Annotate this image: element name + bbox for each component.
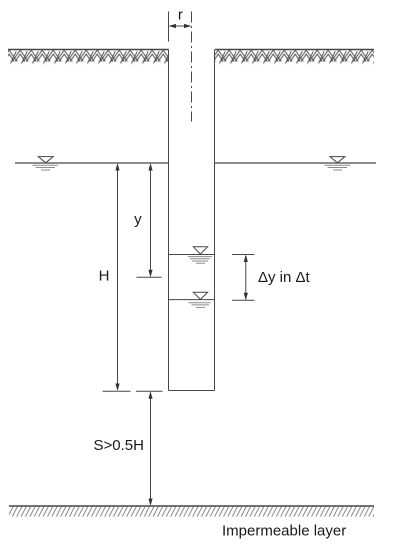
centerline of well (dash-dot) [191,12,193,122]
dimension S [136,391,163,506]
ground surface right [215,50,374,65]
dimension H [103,163,131,391]
extension line above pipe left wall [168,12,170,42]
dimension y [136,163,161,277]
dimension delta-y ticks [232,255,255,301]
ground surface left [8,50,169,65]
water table symbol left [33,157,59,170]
dimension arrow r [169,24,192,28]
water table symbol right [325,157,351,170]
water level 1 symbol [188,247,212,263]
impermeable layer [9,506,374,517]
svg-text:S>0.5H: S>0.5H [94,437,144,454]
water level 2 inside well [169,299,215,301]
well right wall [214,50,216,391]
water level 2 symbol [189,292,211,307]
well left wall [168,50,170,391]
well bottom [169,390,215,392]
svg-text:Δy in Δt: Δy in Δt [258,269,311,286]
svg-text:H: H [99,268,110,285]
svg-text:r: r [178,7,183,24]
water table line left [15,162,169,164]
water level 1 inside well [169,254,215,256]
svg-text:y: y [134,211,142,228]
water table line right [215,162,377,164]
svg-text:Impermeable layer: Impermeable layer [222,523,346,540]
